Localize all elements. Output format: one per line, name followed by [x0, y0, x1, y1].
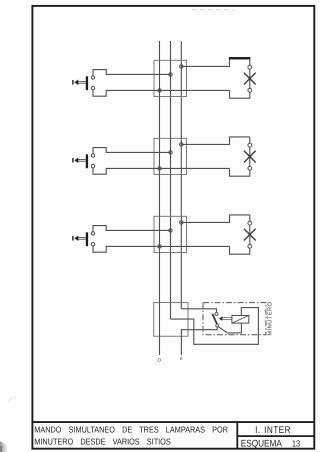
svg-text:MINUTERO: MINUTERO: [267, 301, 274, 335]
svg-text:I. INTER: I. INTER: [255, 425, 291, 436]
svg-text:ESQUEMA: ESQUEMA: [241, 438, 283, 449]
svg-text:MANDO SIMULTANEO DE TRES LAMPA: MANDO SIMULTANEO DE TRES LAMPARAS POR: [34, 425, 228, 435]
svg-text:13: 13: [292, 438, 300, 448]
svg-text:O: O: [158, 357, 162, 362]
svg-text:MINUTERO DESDE VARIOS SITIOS: MINUTERO DESDE VARIOS SITIOS: [34, 436, 171, 446]
svg-text:R: R: [180, 357, 183, 361]
